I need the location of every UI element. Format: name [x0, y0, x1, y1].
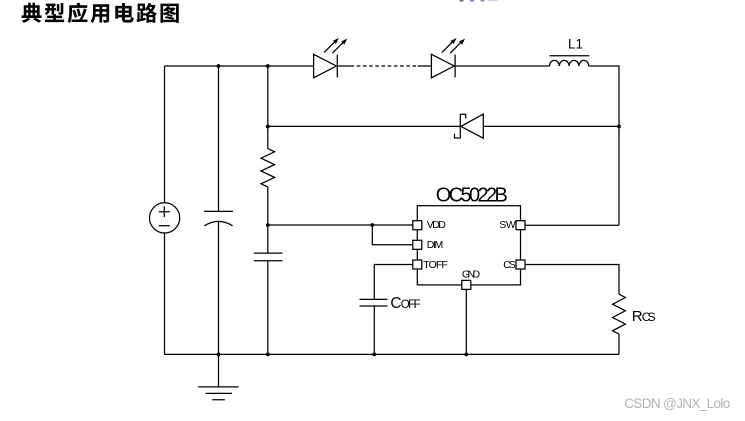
wire left rail top (to source)	[164, 66, 166, 203]
LED D1	[314, 42, 343, 78]
svg-text:VDD: VDD	[427, 219, 446, 231]
capacitor C2	[254, 253, 283, 261]
node at R1 branch / freewheel rail	[266, 125, 270, 129]
wire C2 lower	[267, 261, 269, 355]
wire L1 to right rail, down to SW	[589, 66, 619, 225]
wire TOFF branch	[374, 265, 413, 300]
LED D2	[431, 42, 460, 78]
wire GND pin to bottom rail	[465, 289, 467, 354]
node Coff branch bottom	[372, 353, 376, 357]
wire bottom rail	[165, 353, 620, 355]
svg-text:OC5022B: OC5022B	[436, 184, 508, 206]
wire R1 branch upper	[267, 66, 269, 149]
resistor R1	[261, 149, 275, 187]
node GND branch bottom	[464, 353, 468, 357]
pin CS	[516, 260, 525, 269]
wire LED1 cathode to dashed section	[337, 65, 350, 67]
svg-text:GND: GND	[462, 269, 481, 281]
node ground stem	[217, 353, 221, 357]
svg-text:SW: SW	[499, 219, 516, 231]
node freewheel diode cathode rail	[617, 125, 621, 129]
svg-text:TOFF: TOFF	[423, 259, 448, 271]
svg-text:CS: CS	[503, 259, 516, 271]
cropped text fragment at top edge	[460, 0, 498, 2]
schottky diode D3	[455, 114, 484, 138]
wire CS pin to Rcs	[525, 265, 619, 295]
svg-text:L1: L1	[568, 37, 583, 52]
ground symbol	[198, 354, 238, 399]
wire diode anode to right rail	[483, 125, 619, 127]
wire LED2 cathode to inductor L1	[455, 65, 549, 67]
capacitor C1 (input, polarized)	[204, 211, 233, 225]
wire dashed (series LED string continuation)	[351, 65, 418, 67]
pin SW	[516, 221, 525, 230]
voltage source V1	[150, 203, 180, 233]
wire top rail left (Vin to LED1 anode)	[165, 65, 314, 67]
wire C1 branch upper	[218, 66, 220, 211]
svg-text:OFF: OFF	[401, 299, 421, 311]
IC U1 OC5022B body	[417, 206, 520, 285]
pin VDD	[413, 221, 422, 230]
wire freewheel rail left (to R1/C2 branch)	[268, 125, 461, 127]
wire C1 branch lower	[218, 222, 220, 355]
wire Rcs lower	[618, 334, 620, 354]
wire R1 to VDD node	[267, 187, 269, 253]
node R1 branch top	[266, 64, 270, 68]
pin GND	[462, 280, 471, 289]
svg-text:CS: CS	[642, 310, 656, 324]
node C2 branch bottom	[266, 353, 270, 357]
wire Coff lower	[373, 306, 375, 354]
node DIM takeoff	[370, 223, 374, 227]
svg-text:CSDN @JNX_Lolo: CSDN @JNX_Lolo	[624, 396, 730, 411]
wire left rail bottom	[164, 233, 166, 354]
wire VDD rail	[268, 224, 413, 226]
resistor Rcs	[613, 294, 626, 334]
wire dashed section to LED2 anode	[418, 65, 432, 67]
title 典型应用电路图	[22, 3, 179, 23]
node VDD takeoff	[266, 223, 270, 227]
wire SW pin to right rail	[525, 224, 619, 226]
pin TOFF	[413, 260, 422, 269]
wire DIM branch	[372, 225, 413, 245]
node C1 branch top	[217, 64, 221, 68]
capacitor Coff	[360, 299, 388, 306]
svg-text:DIM: DIM	[427, 239, 444, 251]
inductor L1	[550, 56, 590, 66]
pin DIM	[413, 240, 422, 249]
